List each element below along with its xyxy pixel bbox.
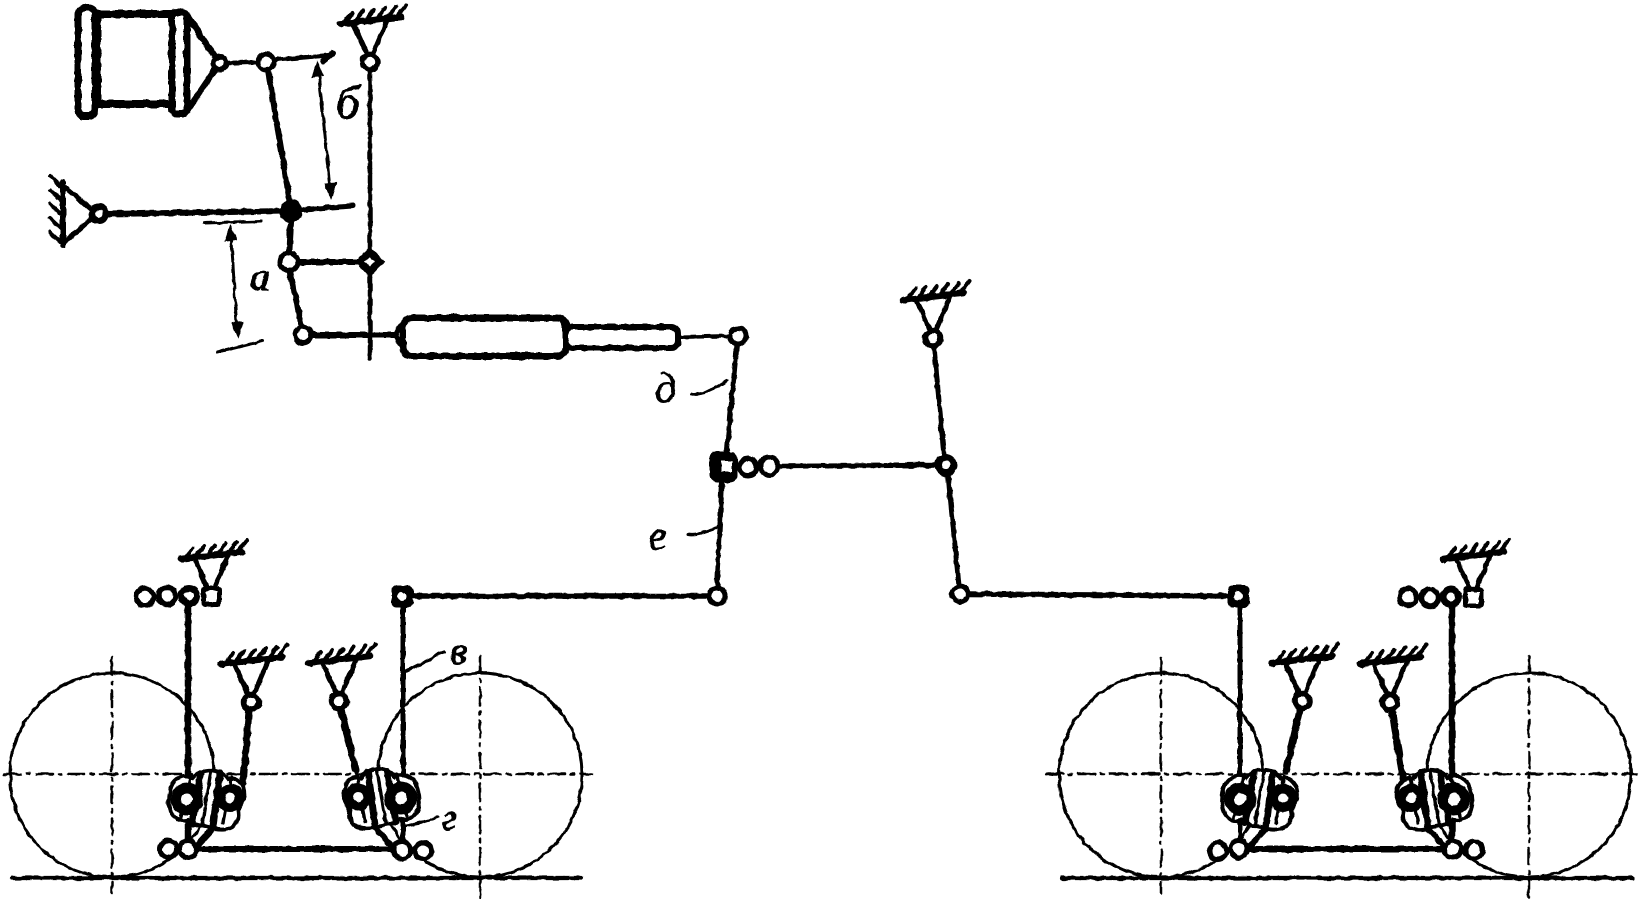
svg-text:в: в	[450, 628, 467, 673]
svg-text:г: г	[442, 797, 457, 839]
svg-text:е: е	[649, 513, 667, 558]
svg-text:б: б	[336, 77, 361, 129]
svg-text:а: а	[250, 254, 270, 299]
svg-text:д: д	[655, 366, 676, 412]
